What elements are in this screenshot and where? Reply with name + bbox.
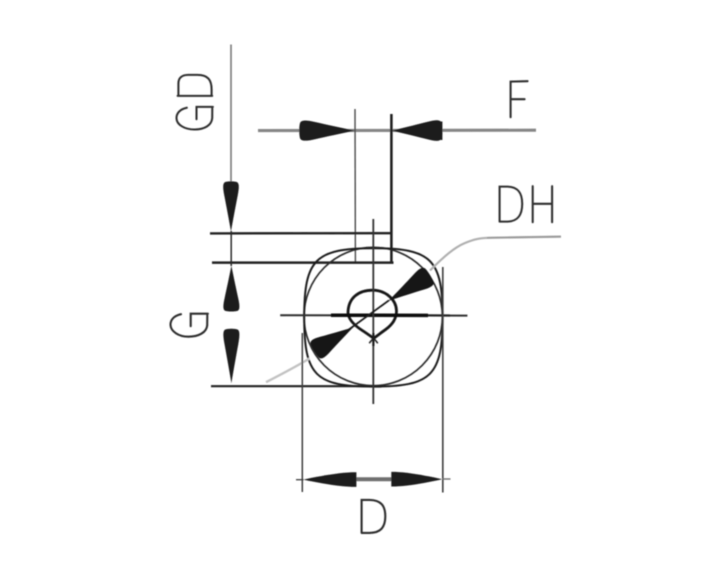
- label DH : D glyph: [500, 186, 552, 222]
- ball contour rounded square: [304, 248, 442, 386]
- label G (rotated): [170, 314, 207, 337]
- horizontal centerline thick overlay: [331, 313, 428, 317]
- label GD (rotated) : D arch: [176, 75, 212, 130]
- horizontal centerline: [280, 314, 467, 316]
- ball outline big circle: [304, 247, 442, 385]
- extension line stem left edge: [354, 109, 356, 262]
- label GD : G glyph: [176, 107, 212, 130]
- dim line overshoot left: [296, 479, 304, 481]
- G bottom extension line: [211, 385, 373, 387]
- flange bottom line: [212, 261, 394, 264]
- D dimension middle bar: [356, 477, 393, 481]
- arrowhead GD down: [223, 181, 239, 231]
- extension line stem right edge (thick): [390, 114, 393, 263]
- vertical centerline: [372, 219, 374, 404]
- dimension line F (grey horizontal): [258, 129, 536, 133]
- centerline overlap at bore tip: [372, 333, 374, 346]
- dim line overshoot right: [442, 478, 451, 480]
- arrowhead DH upper (points down-left): [383, 266, 436, 310]
- D extension line right: [442, 267, 444, 493]
- bore curve overshoot right: [374, 338, 378, 343]
- dimension connector through flange band: [230, 231, 232, 266]
- label D: [362, 500, 386, 533]
- flange top line: [210, 232, 392, 235]
- bore curve overshoot left: [369, 338, 373, 343]
- arrowhead D right (points right): [391, 472, 442, 487]
- bore (shield shape): [348, 290, 397, 338]
- arrowhead F left: [299, 121, 355, 141]
- DH leader curve upper: [430, 237, 561, 271]
- arrowhead G lower (points down): [223, 329, 239, 383]
- D extension line left: [301, 333, 303, 492]
- arrowhead D left (points left): [303, 472, 356, 487]
- label DH : H glyph: [533, 186, 552, 222]
- arrowhead F right butt serif: [441, 122, 443, 141]
- arrowhead F right: [392, 120, 443, 141]
- arrowhead DH lower (points up-right): [309, 318, 359, 360]
- dimension line GD (vertical grey): [230, 45, 232, 187]
- DH leader tail lower: [266, 359, 310, 383]
- arrowhead G upper (points up): [223, 266, 239, 312]
- DH diagonal measure line: [348, 300, 390, 330]
- label F: [511, 81, 528, 117]
